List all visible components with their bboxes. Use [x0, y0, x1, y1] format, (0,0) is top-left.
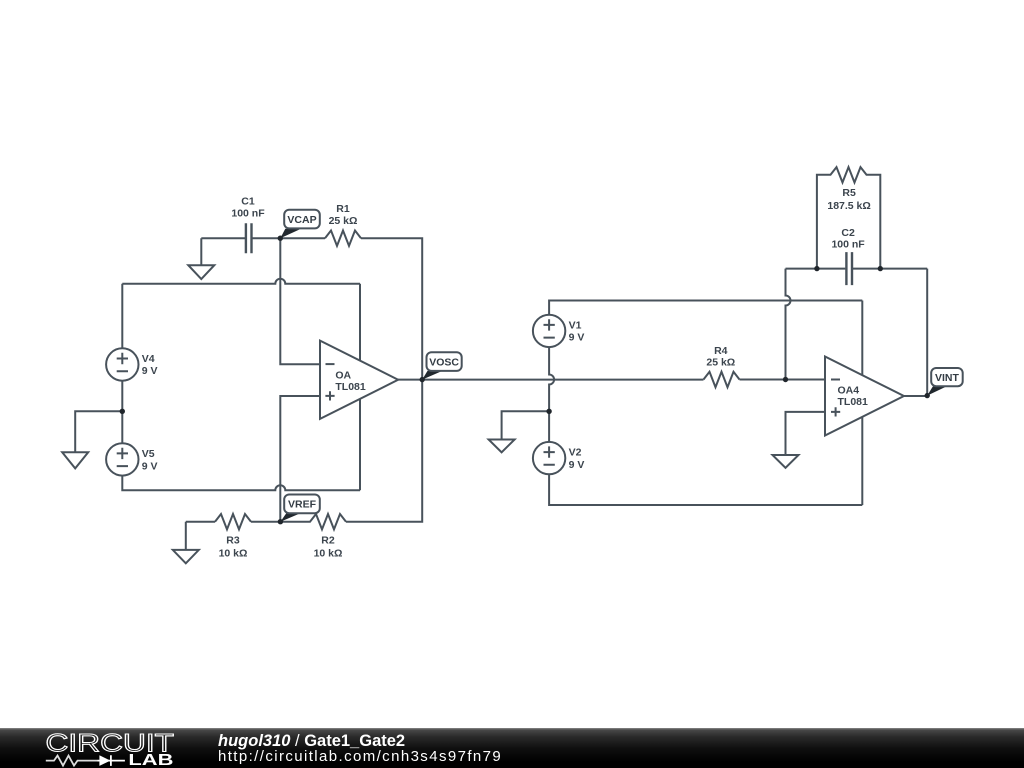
svg-text:VREF: VREF: [288, 499, 317, 511]
svg-text:100 nF: 100 nF: [831, 239, 865, 251]
svg-text:10 kΩ: 10 kΩ: [314, 548, 343, 560]
svg-text:TL081: TL081: [335, 381, 366, 393]
svg-text:V5: V5: [142, 448, 155, 460]
svg-text:OA: OA: [335, 370, 351, 382]
svg-text:C2: C2: [841, 227, 855, 239]
svg-text:R2: R2: [321, 534, 335, 546]
svg-text:9 V: 9 V: [142, 365, 158, 377]
svg-text:TL081: TL081: [838, 396, 869, 408]
svg-text:R1: R1: [336, 203, 350, 215]
svg-text:100 nF: 100 nF: [231, 208, 265, 220]
svg-text:9 V: 9 V: [142, 460, 158, 472]
svg-text:C1: C1: [241, 196, 255, 208]
svg-text:10 kΩ: 10 kΩ: [219, 548, 248, 560]
svg-text:V4: V4: [142, 353, 155, 365]
svg-text:R3: R3: [226, 534, 240, 546]
svg-text:25 kΩ: 25 kΩ: [329, 215, 358, 227]
svg-text:VOSC: VOSC: [429, 356, 459, 368]
svg-text:187.5 kΩ: 187.5 kΩ: [827, 200, 870, 212]
svg-text:http://circuitlab.com/cnh3s4s9: http://circuitlab.com/cnh3s4s97fn79: [218, 748, 502, 765]
svg-text:25 kΩ: 25 kΩ: [706, 357, 735, 369]
svg-text:R5: R5: [842, 187, 856, 199]
svg-text:LAB: LAB: [128, 752, 173, 768]
svg-text:R4: R4: [714, 345, 728, 357]
svg-text:9 V: 9 V: [569, 459, 585, 471]
svg-text:V2: V2: [569, 447, 582, 459]
svg-text:9 V: 9 V: [569, 332, 585, 344]
svg-text:OA4: OA4: [838, 385, 860, 397]
svg-text:VCAP: VCAP: [287, 214, 316, 226]
svg-text:V1: V1: [569, 319, 582, 331]
svg-text:VINT: VINT: [935, 372, 960, 384]
